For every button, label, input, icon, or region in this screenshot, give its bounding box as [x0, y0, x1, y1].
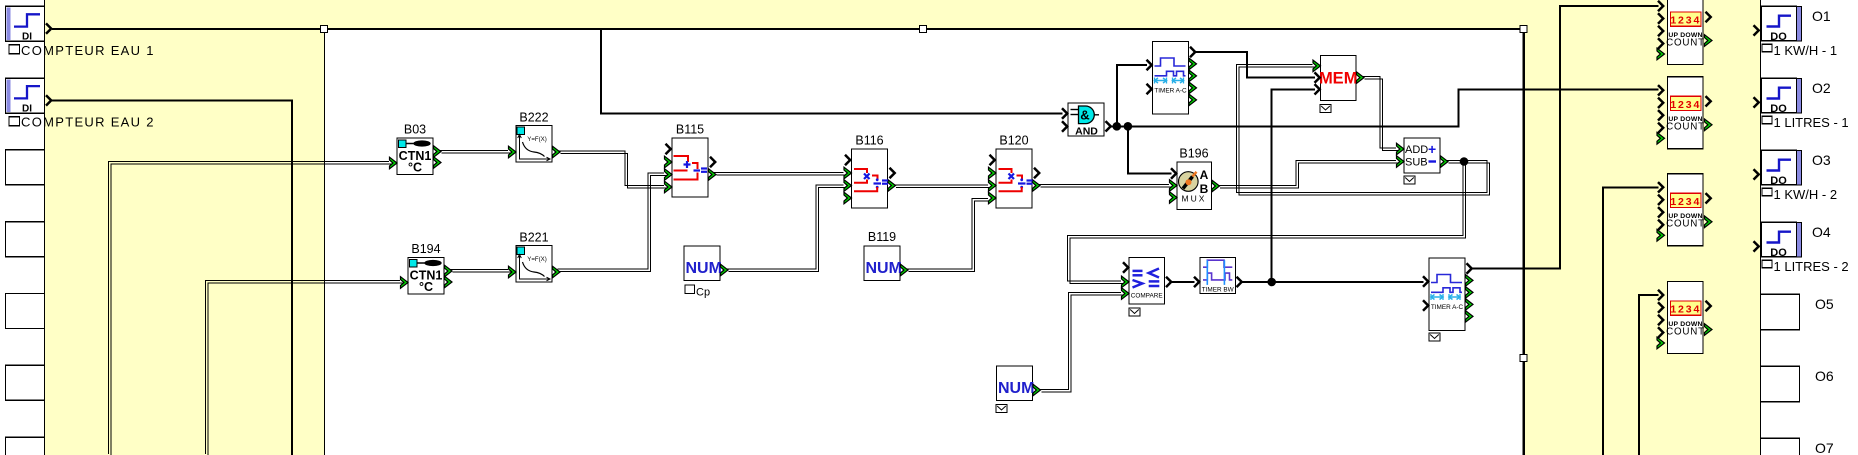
- svg-text:DI: DI: [22, 103, 32, 114]
- svg-text:TIMER A-C: TIMER A-C: [1154, 88, 1187, 95]
- svg-text:O3: O3: [1812, 152, 1831, 168]
- svg-text:O1: O1: [1812, 8, 1831, 24]
- svg-text:COMPTEUR EAU 2: COMPTEUR EAU 2: [21, 115, 155, 130]
- svg-text:COMPTEUR EAU 1: COMPTEUR EAU 1: [21, 43, 155, 58]
- svg-text:Y=F(X): Y=F(X): [527, 256, 546, 263]
- svg-text:Cp: Cp: [696, 287, 710, 299]
- svg-text:B116: B116: [855, 134, 883, 148]
- svg-text:MUX: MUX: [1182, 194, 1207, 204]
- svg-text:AND: AND: [1075, 125, 1098, 137]
- svg-text:TIMER BW: TIMER BW: [1202, 286, 1235, 293]
- svg-text:COMPARE: COMPARE: [1131, 293, 1163, 300]
- svg-text:COUNT: COUNT: [1666, 122, 1705, 133]
- svg-text:Y=F(X): Y=F(X): [527, 136, 546, 143]
- svg-text:1 KW/H - 1: 1 KW/H - 1: [1774, 43, 1838, 58]
- svg-text:O2: O2: [1812, 80, 1831, 96]
- svg-text:°C: °C: [408, 161, 422, 175]
- svg-text:MEM: MEM: [1319, 69, 1358, 87]
- svg-text:°C: °C: [419, 280, 433, 294]
- svg-text:1 KW/H - 2: 1 KW/H - 2: [1774, 187, 1838, 202]
- svg-text:DO: DO: [1770, 31, 1787, 43]
- svg-text:DI: DI: [22, 32, 32, 43]
- svg-text:ADD: ADD: [1405, 144, 1428, 156]
- svg-text:1 LITRES - 2: 1 LITRES - 2: [1774, 259, 1849, 274]
- svg-text:+: +: [1428, 141, 1436, 157]
- svg-text:COUNT: COUNT: [1666, 219, 1705, 230]
- svg-text:1234: 1234: [1670, 15, 1701, 27]
- svg-text:COUNT: COUNT: [1666, 326, 1705, 337]
- svg-text:DO: DO: [1770, 247, 1787, 259]
- svg-text:B194: B194: [411, 242, 440, 256]
- svg-text:O4: O4: [1812, 224, 1831, 240]
- svg-text:&: &: [1080, 108, 1089, 123]
- svg-text:B222: B222: [519, 111, 548, 125]
- svg-text:1234: 1234: [1670, 196, 1701, 208]
- svg-text:O5: O5: [1815, 296, 1834, 312]
- svg-text:B120: B120: [999, 134, 1028, 148]
- svg-text:B221: B221: [519, 231, 548, 245]
- svg-text:B196: B196: [1179, 147, 1208, 161]
- svg-text:COUNT: COUNT: [1666, 37, 1705, 48]
- svg-text:1234: 1234: [1670, 304, 1701, 316]
- svg-text:B03: B03: [404, 123, 426, 137]
- svg-text:A: A: [1200, 168, 1209, 182]
- svg-text:NUM: NUM: [866, 260, 902, 277]
- svg-text:1 LITRES - 1: 1 LITRES - 1: [1774, 115, 1849, 130]
- svg-text:B119: B119: [868, 230, 896, 244]
- svg-text:O6: O6: [1815, 368, 1834, 384]
- svg-text:NUM: NUM: [998, 380, 1034, 397]
- svg-text:TIMER A-C: TIMER A-C: [1431, 304, 1464, 311]
- svg-text:DO: DO: [1770, 103, 1787, 115]
- svg-text:1234: 1234: [1670, 99, 1701, 111]
- svg-text:B115: B115: [676, 123, 704, 137]
- svg-text:DO: DO: [1770, 175, 1787, 187]
- svg-text:O7: O7: [1815, 440, 1834, 455]
- svg-text:SUB: SUB: [1405, 157, 1428, 169]
- svg-text:NUM: NUM: [686, 260, 722, 277]
